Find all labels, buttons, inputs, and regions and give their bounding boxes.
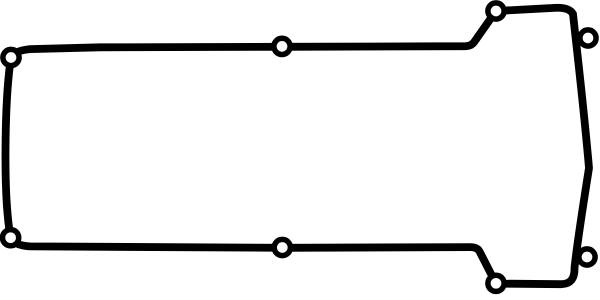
- bolt hole top-middle: [274, 38, 290, 54]
- bolt hole bottom-step: [488, 275, 504, 291]
- bolt hole right-top: [580, 30, 596, 46]
- bolt hole bottom-left: [3, 230, 19, 246]
- bolt hole top-step: [488, 3, 504, 19]
- bolt hole bottom-middle: [274, 239, 290, 255]
- bolt hole right-bottom: [579, 249, 595, 265]
- bolt hole top-left: [3, 49, 19, 65]
